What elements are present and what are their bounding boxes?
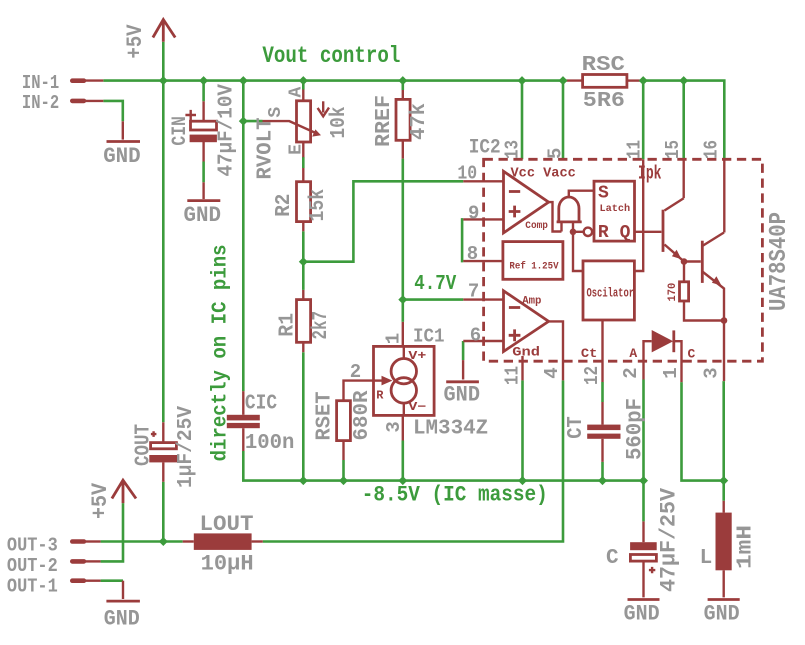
svg-text:8: 8: [467, 243, 478, 265]
svg-text:11: 11: [502, 366, 524, 385]
Oscilator box: [583, 261, 634, 320]
wire pin 11 bottom (Gnd) to bus: [521, 380, 524, 480]
IC2 pin 8 red stub: [463, 260, 503, 262]
capacitor CIC: [227, 391, 260, 451]
svg-text:10k: 10k: [328, 107, 351, 139]
svg-text:V−: V−: [408, 400, 426, 414]
junction bus at CT: [598, 476, 607, 485]
ground symbol GND at IN-2: [107, 121, 141, 141]
svg-text:5R6: 5R6: [583, 90, 625, 113]
IC2 pin 9 red stub: [463, 218, 503, 220]
IC2 pin 15 internal lead: [683, 159, 685, 198]
latch R input wire and bubble: [573, 228, 592, 236]
svg-text:-8.5V (IC masse): -8.5V (IC masse): [362, 483, 548, 508]
wire pin 12 to CT: [601, 382, 604, 402]
svg-text:LM334Z: LM334Z: [413, 418, 488, 441]
resistor R1: [297, 290, 311, 352]
wire OUT-3 to LOUT: [101, 540, 183, 543]
IC2 pin 11 Gnd lead: [521, 356, 523, 380]
junction 4.7V node: [398, 295, 407, 304]
wire CIN top: [202, 81, 205, 102]
wire pin 3 to L node: [722, 381, 725, 481]
svg-text:1: 1: [660, 367, 682, 378]
Oscilator output pin 12 lead: [601, 320, 603, 382]
wire RSET bottom to bus: [342, 460, 345, 481]
capacitor CT: [587, 402, 620, 462]
svg-text:RSC: RSC: [582, 54, 626, 77]
IC2 pin 10 red stub: [463, 180, 503, 182]
svg-text:Gnd: Gnd: [512, 345, 540, 360]
ground symbol GND at OUT-1: [106, 581, 139, 601]
supply symbol +5V arrow bottom: [112, 480, 136, 503]
svg-text:IC2: IC2: [469, 137, 501, 160]
svg-text:3: 3: [701, 367, 723, 378]
potentiometer RVOLT wiper arrow: [263, 121, 322, 137]
junction bus at RSET: [339, 476, 348, 485]
svg-text:2: 2: [620, 367, 642, 378]
wire IC1 pin3 to bus: [401, 441, 404, 481]
wire COUT to OUT-3 row: [162, 482, 165, 542]
resistor RSET with IC1 pin2 corner: [337, 381, 374, 460]
Comp output wire: [549, 202, 562, 231]
svg-text:7: 7: [468, 281, 479, 303]
junction dot Q1 emitter node: [681, 258, 688, 265]
wire pin 9 to pin 8 loop: [462, 219, 463, 261]
svg-text:S: S: [266, 107, 286, 118]
svg-text:13: 13: [502, 140, 524, 159]
wire node R2/R1 to IC2 pin 10: [303, 181, 463, 261]
svg-text:CT: CT: [565, 416, 588, 439]
svg-text:A: A: [286, 87, 306, 98]
diode D: [652, 330, 682, 382]
svg-text:RREF: RREF: [373, 95, 396, 147]
wire OUT-1 to GND corner: [101, 579, 123, 582]
svg-text:C: C: [688, 347, 696, 362]
svg-text:R2: R2: [273, 194, 296, 217]
resistor R2: [297, 168, 311, 231]
svg-text:GND: GND: [104, 607, 140, 632]
wire x163 column rail to COUT: [162, 81, 165, 423]
ground symbol GND below CIN: [187, 182, 220, 200]
wire RREF top: [401, 81, 404, 90]
svg-text:12: 12: [581, 366, 603, 385]
latch Q output wire: [635, 231, 662, 233]
junction bus at R1: [299, 476, 308, 485]
svg-text:LOUT: LOUT: [200, 512, 254, 537]
junction rail at pin 5: [559, 76, 568, 85]
transistor Q2: [684, 233, 724, 321]
Amp output to pin 4: [549, 321, 563, 380]
svg-text:Ct: Ct: [581, 346, 598, 361]
svg-text:11: 11: [624, 140, 646, 159]
junction rail at +5V stem: [159, 76, 168, 85]
junction rail at pin 15: [679, 76, 688, 85]
svg-text:47k: 47k: [408, 103, 431, 140]
junction S node: [239, 117, 248, 126]
svg-text:2: 2: [350, 361, 361, 383]
svg-text:V+: V+: [408, 349, 426, 363]
svg-text:+5V: +5V: [123, 24, 148, 59]
svg-text:R: R: [376, 388, 384, 402]
svg-text:16: 16: [701, 140, 723, 159]
inductor LOUT: [183, 533, 263, 550]
wire RREF down to IC1 pin1 (4.7V net): [401, 159, 404, 322]
wire S link to RVOLT wiper: [243, 120, 262, 123]
svg-text:OUT-2: OUT-2: [7, 555, 58, 577]
wire +5V arrow stem green: [162, 42, 165, 81]
svg-text:R1: R1: [277, 313, 300, 337]
wire +5V rail y80 right segment to pin 16 corner: [640, 81, 724, 160]
svg-text:S: S: [598, 183, 609, 203]
wire pin 1 route to L node: [682, 382, 724, 481]
svg-text:+5V: +5V: [88, 482, 113, 519]
junction rail at RREF: [398, 76, 407, 85]
svg-text:3: 3: [383, 421, 405, 432]
capacitor CIN electrolytic: [185, 101, 217, 161]
junction R2/R1 node: [299, 257, 308, 266]
Latch box: [594, 181, 635, 241]
wire pin 11 top (Ipk) from rail: [642, 81, 645, 160]
wire IN-2 to GND corner: [103, 101, 123, 121]
wire R2 to R1: [302, 231, 305, 290]
svg-text:1µF/25V: 1µF/25V: [175, 406, 198, 488]
svg-text:2k7: 2k7: [310, 311, 333, 340]
connector pin OUT-3: [70, 539, 101, 544]
svg-text:UA78S40P: UA78S40P: [766, 212, 793, 311]
IC2 dashed box UA78S40P: [484, 159, 763, 361]
svg-text:4.7V: 4.7V: [414, 273, 456, 296]
connector pin OUT-2: [70, 559, 101, 564]
svg-text:1: 1: [383, 333, 405, 344]
svg-text:Ref 1.25V: Ref 1.25V: [509, 261, 559, 273]
connector pin IN-1: [70, 78, 103, 83]
svg-text:IC1: IC1: [413, 326, 445, 348]
svg-text:E: E: [286, 144, 306, 155]
potentiometer RVOLT body: [297, 90, 311, 158]
wire pin 13 from rail: [521, 81, 524, 160]
resistor RREF: [396, 90, 410, 159]
junction dot AND/R node: [570, 229, 577, 236]
wire R1 to bus: [302, 352, 305, 480]
svg-text:GND: GND: [444, 383, 481, 408]
svg-text:Vcc Vacc: Vcc Vacc: [511, 166, 576, 182]
svg-text:680R: 680R: [351, 390, 374, 440]
svg-text:CIN: CIN: [169, 116, 192, 146]
Ref 1.25V box: [503, 242, 563, 280]
connector pin OUT-1: [70, 578, 101, 583]
wire x243 rail to S junction: [242, 81, 245, 122]
svg-text:R: R: [598, 223, 609, 243]
svg-text:C: C: [606, 547, 619, 570]
junction dot pin3 node: [721, 317, 728, 324]
IC2 pin 7 red stub: [463, 298, 503, 300]
svg-text:COUT: COUT: [133, 424, 156, 466]
AND gate: [557, 191, 594, 232]
svg-text:A: A: [629, 346, 637, 361]
supply symbol +5V arrow top: [153, 20, 175, 42]
svg-text:IN-2: IN-2: [22, 92, 59, 114]
svg-text:560pF: 560pF: [623, 398, 648, 460]
potentiometer RVOLT adjust arrow: [318, 101, 329, 116]
ground symbol GND at IC2 pin 6: [446, 360, 479, 382]
junction bus at pin 11: [518, 476, 527, 485]
ground symbol GND below C: [628, 562, 660, 599]
IC1 pin 3 lead: [402, 415, 404, 440]
svg-text:directly on IC pins: directly on IC pins: [210, 244, 233, 461]
svg-text:100n: 100n: [245, 432, 295, 455]
svg-text:OUT-1: OUT-1: [7, 576, 58, 598]
svg-text:4: 4: [541, 367, 563, 378]
wire pin 5 from rail: [562, 81, 565, 160]
svg-text:OUT-3: OUT-3: [7, 535, 58, 557]
svg-text:47µF/10V: 47µF/10V: [216, 84, 239, 177]
svg-text:Vout control: Vout control: [262, 43, 400, 69]
svg-text:15: 15: [662, 140, 684, 159]
wire CT to bus: [601, 462, 604, 481]
svg-text:GND: GND: [184, 203, 222, 228]
junction OUT-3 / COUT: [159, 537, 168, 546]
wire AND node to Oscilator left: [573, 232, 584, 271]
svg-text:IN-1: IN-1: [22, 72, 59, 94]
IC1 pin 1 lead: [402, 322, 404, 347]
svg-text:Q: Q: [620, 223, 631, 243]
svg-text:5: 5: [544, 148, 566, 159]
wire x243 down to CIC: [242, 121, 245, 391]
wire pin 15 from rail: [682, 81, 685, 160]
capacitor C electrolytic: [630, 521, 657, 573]
op-amp Comp: [504, 171, 549, 233]
transistor Q1: [663, 198, 684, 261]
current source IC1 LM334Z box: [374, 346, 435, 415]
svg-text:GND: GND: [704, 602, 740, 627]
svg-text:Oscilator: Oscilator: [587, 285, 635, 300]
IC2 pin 6 red stub: [463, 340, 503, 342]
wire pin 7 feed: [403, 298, 464, 301]
svg-text:9: 9: [468, 203, 479, 225]
svg-text:170: 170: [667, 283, 679, 302]
wire pin 2 down to bus and C: [642, 380, 645, 522]
IC2 pin 11 Ipk internal lead: [635, 159, 644, 271]
capacitor COUT electrolytic: [149, 422, 177, 482]
svg-text:L: L: [700, 547, 713, 570]
svg-text:RSET: RSET: [314, 392, 337, 441]
svg-text:Amp: Amp: [522, 296, 542, 308]
svg-text:GND: GND: [624, 602, 660, 627]
wire pin 4 feedback route to LOUT output: [263, 380, 563, 541]
op-amp Amp: [504, 291, 549, 352]
wire RVOLT to R2: [302, 157, 305, 168]
svg-text:RVOLT: RVOLT: [254, 118, 277, 180]
junction bus at pin 2 / C: [639, 476, 648, 485]
junction rail at pin 11: [639, 76, 648, 85]
junction L node: [719, 476, 728, 485]
junction bus at IC1 pin3: [398, 476, 407, 485]
resistor 170: [680, 262, 725, 321]
IC2 pin 3 internal lead: [723, 321, 725, 382]
wire CIC to -8.5V bus along y480: [243, 451, 643, 481]
connector pin IN-2: [70, 99, 103, 104]
diode anode lead from pin 2: [644, 341, 652, 379]
wire RVOLT top: [302, 81, 305, 90]
junction rail at CIN: [199, 76, 208, 85]
svg-text:47µF/25V: 47µF/25V: [657, 487, 682, 592]
svg-text:10: 10: [457, 163, 477, 185]
svg-text:1mH: 1mH: [735, 525, 758, 569]
junction rail at RVOLT: [299, 76, 308, 85]
svg-text:Comp: Comp: [525, 221, 548, 232]
wire pin 6 to GND: [462, 341, 465, 360]
svg-text:15k: 15k: [307, 189, 330, 222]
junction rail at pin 13: [518, 76, 527, 85]
svg-text:CIC: CIC: [245, 393, 278, 416]
svg-text:Latch: Latch: [600, 203, 631, 215]
svg-text:10µH: 10µH: [201, 551, 254, 576]
IC2 pin 16 internal lead: [723, 159, 725, 232]
wire +5V rail y80 left segment (net +5V): [103, 79, 565, 82]
svg-text:GND: GND: [103, 144, 141, 169]
wire L top: [722, 481, 725, 501]
ground symbol GND below L: [708, 570, 740, 599]
resistor RSC: [565, 75, 641, 88]
svg-text:Ipk: Ipk: [638, 163, 662, 185]
wire OUT-2 to +5V arrow: [101, 503, 123, 561]
inductor L: [716, 501, 732, 571]
wire CIN to GND: [202, 162, 205, 183]
junction rail at x243: [239, 76, 248, 85]
svg-text:6: 6: [470, 324, 481, 346]
